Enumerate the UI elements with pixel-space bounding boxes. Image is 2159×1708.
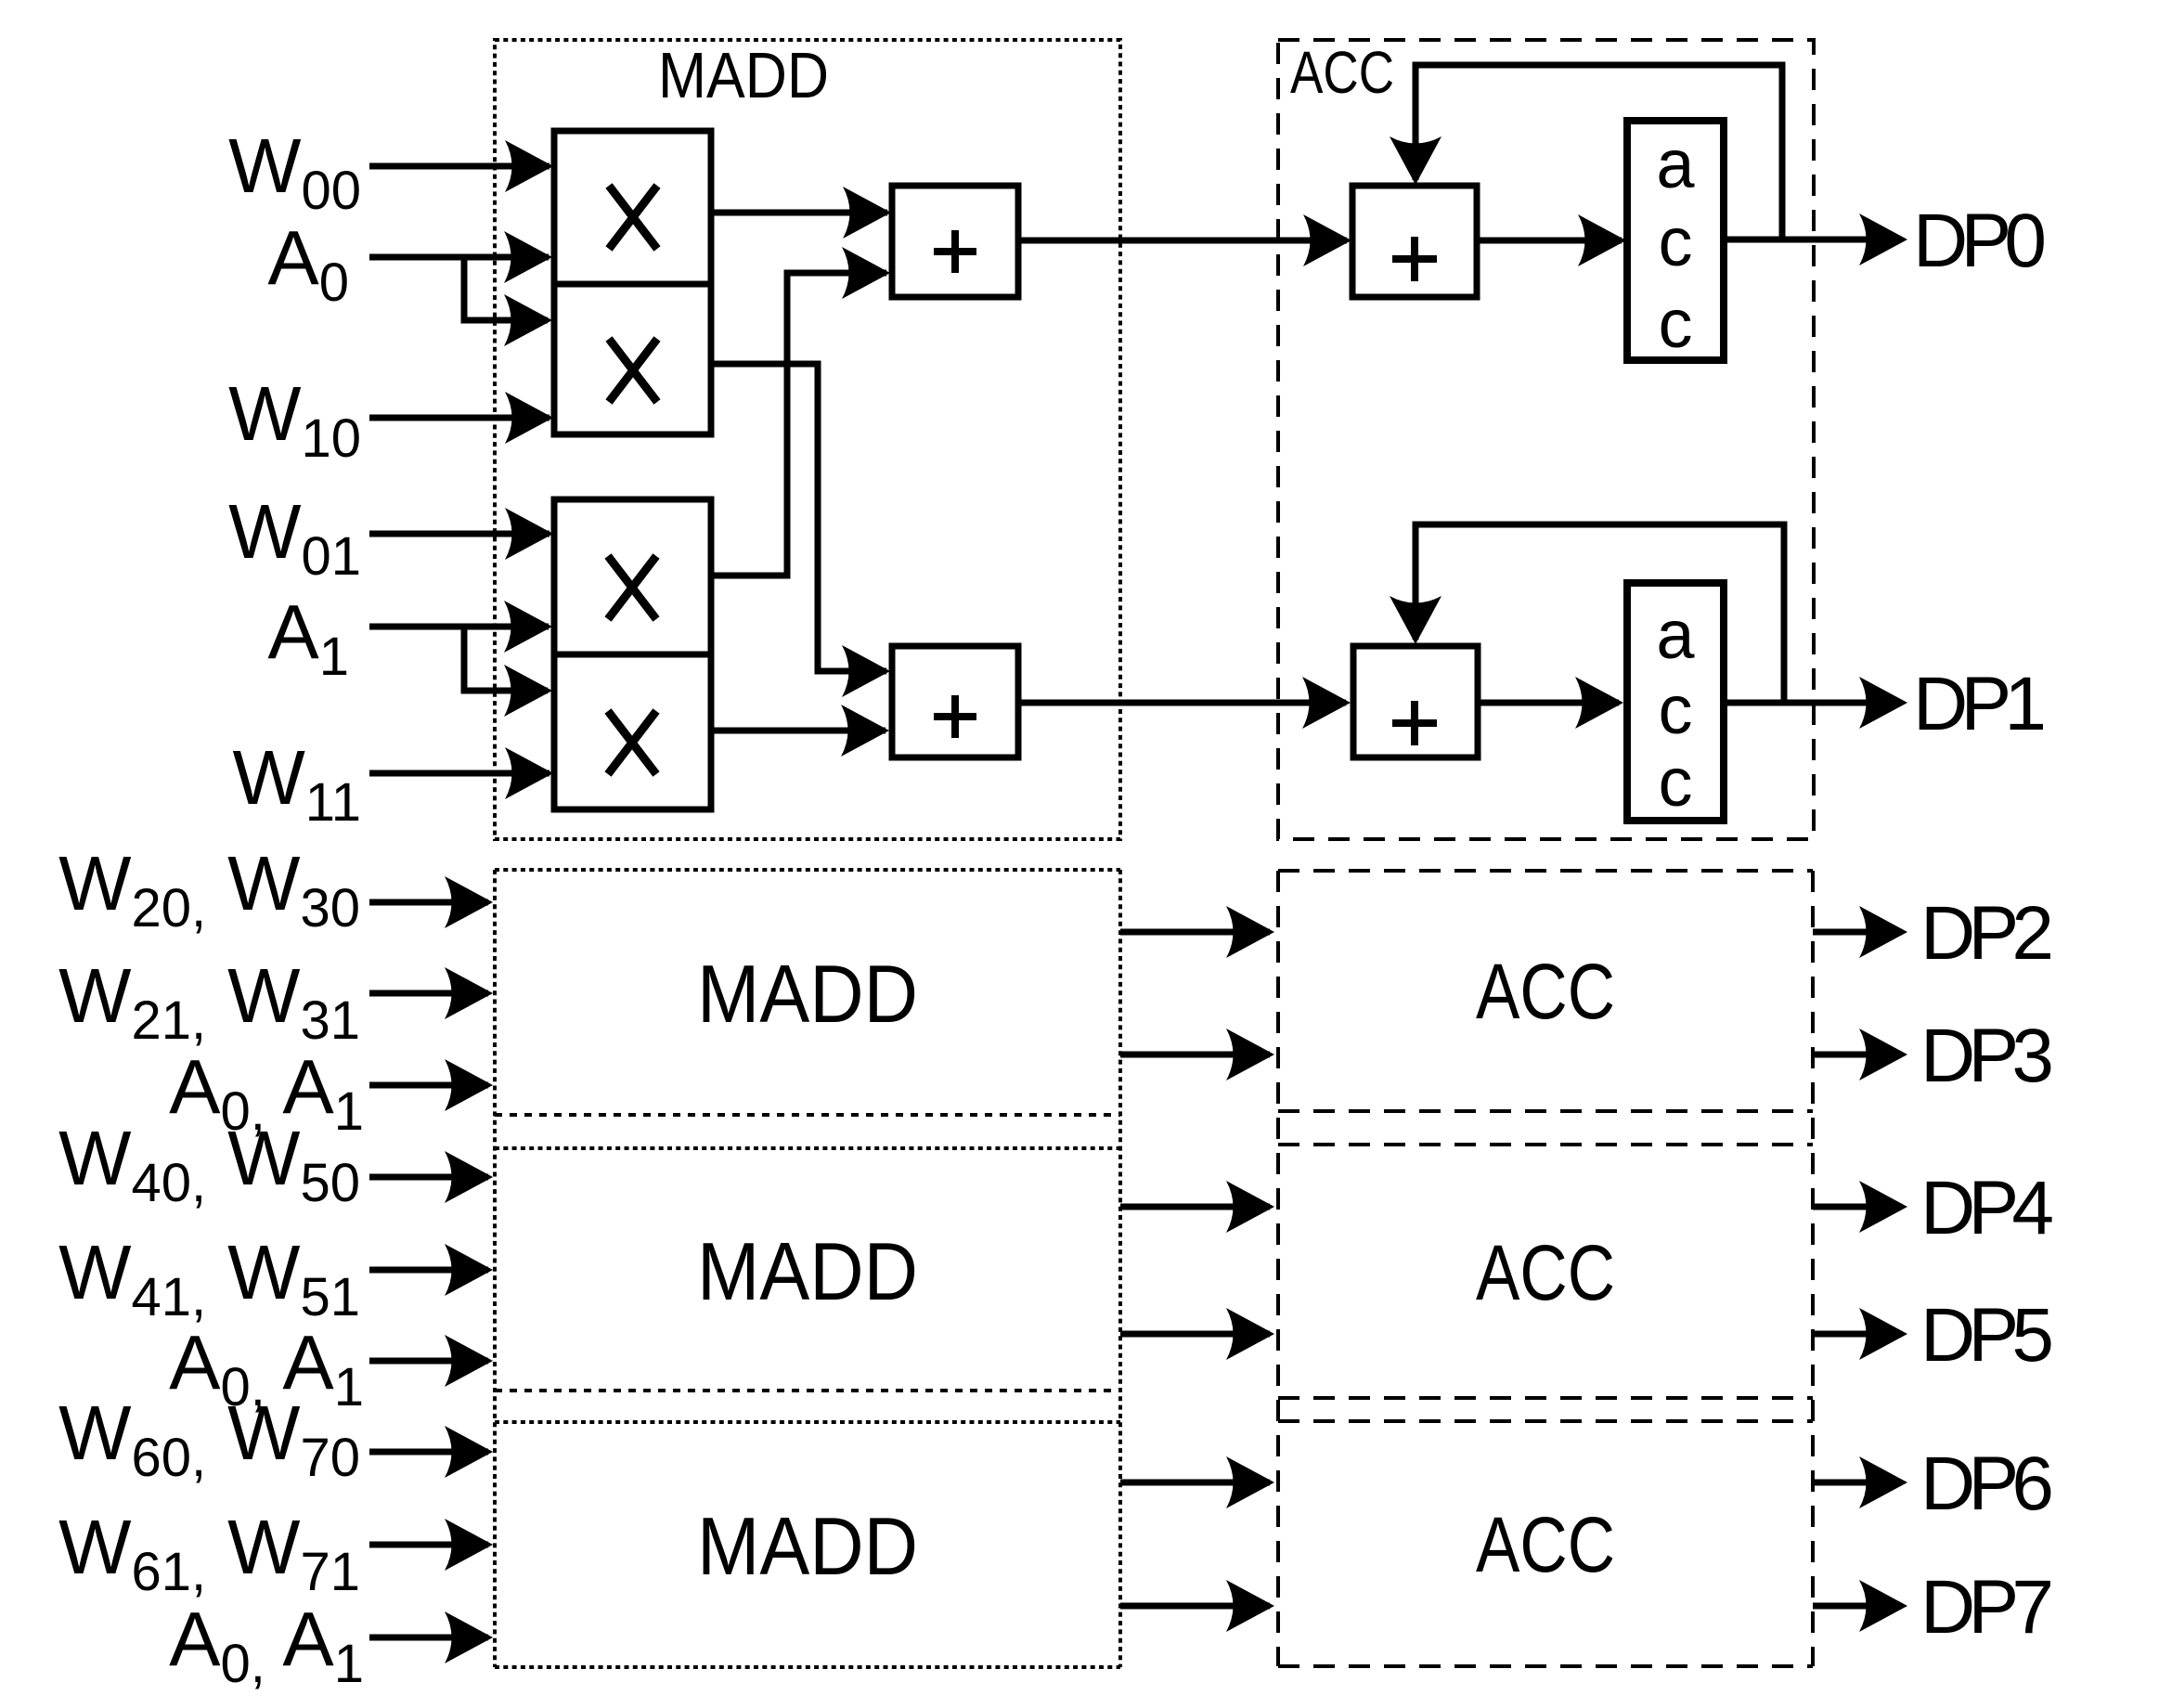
X glyph multiplier 1 bbox=[609, 186, 657, 249]
plus glyph ACC adder2 bbox=[1392, 701, 1437, 745]
svg-text:ACC: ACC bbox=[1476, 1501, 1615, 1588]
arrow row3 into ACC lower bbox=[1226, 1308, 1274, 1360]
ACC row2 dashed bottom edge bbox=[1278, 1109, 1813, 1113]
ACC rows dashed right edge bbox=[1811, 871, 1815, 1666]
plus glyph MADD adder2 bbox=[934, 695, 976, 738]
svg-text:DP0: DP0 bbox=[1913, 199, 2047, 283]
arrow into X2 from A0 branch bbox=[504, 294, 552, 346]
wire X4 output to adder2 bbox=[709, 728, 886, 734]
wire row3 MADD to ACC upper bbox=[1120, 1204, 1270, 1210]
wire X3 output up to adder1 bbox=[709, 273, 886, 576]
wire acc1 feedback top bbox=[1416, 65, 1782, 242]
wire row3 input W40W50 bbox=[369, 1174, 488, 1181]
svg-text:DP5: DP5 bbox=[1920, 1293, 2054, 1378]
wire row3 ACC out DP4 bbox=[1813, 1204, 1902, 1210]
arrow into X1 from W00 bbox=[505, 140, 553, 192]
ACC row2 dashed top edge bbox=[1278, 869, 1813, 873]
wire A1 input bbox=[369, 624, 549, 630]
arrow row3 into MADD W40W50 bbox=[445, 1151, 493, 1203]
arrow into ACC adder1 bbox=[1303, 214, 1351, 266]
arrow into X2 from W10 bbox=[505, 392, 553, 444]
wire row3 input A0A1 bbox=[369, 1358, 488, 1365]
arrow row2 into ACC lower bbox=[1226, 1029, 1274, 1080]
svg-text:ACC: ACC bbox=[1476, 948, 1615, 1035]
wire row4 input A0A1 bbox=[369, 1635, 488, 1641]
wire X2 output down to adder2 bbox=[711, 364, 886, 671]
X glyph multiplier 4 bbox=[608, 711, 656, 774]
svg-text:DP6: DP6 bbox=[1920, 1442, 2054, 1526]
arrow row3 into MADD W41W51 bbox=[445, 1244, 493, 1296]
arrow feedback down into ACC adder2 bbox=[1390, 596, 1441, 644]
wire row4 input W61W71 bbox=[369, 1542, 488, 1548]
svg-text:DP3: DP3 bbox=[1920, 1014, 2054, 1098]
arrow to DP6 bbox=[1859, 1456, 1907, 1508]
adder box MADD2 bbox=[892, 646, 1018, 757]
arrow row2 into MADD A0A1 bbox=[445, 1059, 493, 1111]
svg-text:c: c bbox=[1659, 285, 1693, 362]
ACC row1 dashed box bbox=[1278, 40, 1814, 839]
svg-text:a: a bbox=[1656, 596, 1695, 673]
acc register 1 bbox=[1627, 121, 1724, 360]
svg-text:c: c bbox=[1659, 744, 1693, 821]
arrow into MADD adder1 input2 bbox=[842, 247, 890, 299]
arrow into X1 from A0 bbox=[504, 231, 552, 283]
ACC rows dashed left edge bbox=[1276, 871, 1280, 1666]
wire ACC adder1 out to acc1 register bbox=[1477, 238, 1622, 244]
arrow row3 into ACC upper bbox=[1226, 1181, 1274, 1233]
wire W10 input bbox=[369, 415, 549, 421]
svg-text:ACC: ACC bbox=[1290, 39, 1394, 106]
X glyph multiplier 2 bbox=[609, 339, 657, 402]
wire W00 input bbox=[369, 163, 549, 170]
arrow to DP4 bbox=[1859, 1181, 1907, 1233]
acc register 2 bbox=[1627, 583, 1724, 821]
svg-text:DP7: DP7 bbox=[1920, 1565, 2054, 1650]
wire row4 MADD to ACC upper bbox=[1120, 1480, 1270, 1486]
MADD rows dotted left edge bbox=[493, 870, 497, 1667]
ACC row3 dashed bottom edge bbox=[1278, 1396, 1813, 1400]
arrow feedback down into ACC adder1 bbox=[1390, 136, 1441, 185]
wire row2 ACC out DP3 bbox=[1813, 1052, 1902, 1058]
arrow row2 into MADD W20W30 bbox=[445, 876, 493, 928]
wire row4 ACC out DP7 bbox=[1813, 1603, 1902, 1610]
arrow row4 into MADD W61W71 bbox=[445, 1519, 493, 1571]
arrow into X3 from A1 bbox=[504, 601, 552, 653]
svg-text:DP4: DP4 bbox=[1920, 1166, 2054, 1250]
wire ACC adder2 out to acc2 register bbox=[1478, 700, 1619, 706]
arrow into ACC adder2 bbox=[1302, 677, 1351, 729]
wire acc2 register out to DP1 bbox=[1725, 700, 1902, 706]
multiplier X3 X4 block bbox=[554, 499, 711, 809]
svg-text:DP2: DP2 bbox=[1920, 891, 2054, 976]
arrow row2 into ACC upper bbox=[1226, 906, 1274, 958]
MADD rows dotted right edge bbox=[1118, 870, 1122, 1667]
MADD row1 dotted box bbox=[495, 40, 1120, 839]
wire X1 output to adder1 bbox=[711, 210, 887, 216]
svg-text:c: c bbox=[1659, 203, 1693, 280]
ACC row4 dashed bottom edge bbox=[1278, 1664, 1813, 1668]
svg-text:ACC: ACC bbox=[1476, 1229, 1615, 1316]
arrow row4 into MADD A0A1 bbox=[445, 1611, 493, 1663]
arrow into acc2 register bbox=[1575, 677, 1623, 729]
wire row4 input W60W70 bbox=[369, 1449, 488, 1456]
wire row4 MADD to ACC lower bbox=[1120, 1603, 1270, 1610]
arrow into X3 from W01 bbox=[505, 508, 553, 560]
plus glyph MADD adder1 bbox=[934, 230, 976, 273]
svg-text:c: c bbox=[1659, 671, 1693, 748]
wire row2 input A0A1 bbox=[369, 1082, 488, 1089]
wire MADD adder2 out to ACC adder2 bbox=[1019, 700, 1346, 706]
arrow row4 into MADD W60W70 bbox=[445, 1426, 493, 1478]
svg-text:a: a bbox=[1656, 125, 1695, 202]
wire A0 input bbox=[369, 254, 549, 261]
svg-text:MADD: MADD bbox=[697, 1225, 918, 1317]
ACC row3 dashed top edge bbox=[1278, 1143, 1813, 1146]
wire row2 input W20W30 bbox=[369, 899, 488, 906]
arrow row2 into MADD W21W31 bbox=[445, 967, 493, 1019]
wire row4 ACC out DP6 bbox=[1813, 1480, 1902, 1486]
arrow to DP2 bbox=[1859, 906, 1907, 958]
multiplier X1 X2 block bbox=[554, 131, 711, 434]
svg-text:MADD: MADD bbox=[697, 948, 918, 1040]
wire A1 branch vertical bbox=[464, 628, 548, 691]
MADD row4 dotted top edge bbox=[495, 1420, 1120, 1424]
arrow row3 into MADD A0A1 bbox=[445, 1335, 493, 1387]
arrow to DP3 bbox=[1859, 1029, 1907, 1080]
wire row3 MADD to ACC lower bbox=[1120, 1331, 1270, 1338]
svg-text:DP1: DP1 bbox=[1913, 662, 2047, 746]
wire acc2 feedback top bbox=[1416, 524, 1784, 705]
wire W11 input bbox=[369, 770, 549, 777]
ACC row4 dashed top edge bbox=[1278, 1419, 1813, 1423]
wire W01 input bbox=[369, 531, 549, 537]
MADD row4 dotted bottom edge bbox=[495, 1665, 1120, 1669]
adder box ACC2 bbox=[1353, 646, 1478, 757]
arrow row4 into ACC upper bbox=[1226, 1456, 1274, 1508]
svg-text:MADD: MADD bbox=[658, 39, 829, 111]
plus glyph ACC adder1 bbox=[1392, 237, 1437, 281]
wire row2 MADD to ACC upper bbox=[1120, 929, 1270, 936]
MADD row2 dashed bottom edge bbox=[495, 1113, 1120, 1117]
arrow to DP7 bbox=[1859, 1580, 1907, 1632]
MADD row3 dashed bottom edge bbox=[495, 1389, 1120, 1392]
wire row3 ACC out DP5 bbox=[1813, 1331, 1902, 1338]
arrow into MADD adder2 input2 bbox=[841, 705, 889, 757]
arrow to DP5 bbox=[1859, 1308, 1907, 1360]
arrow into MADD adder2 input1 bbox=[842, 645, 890, 697]
MADD row3 dotted top edge bbox=[495, 1146, 1120, 1150]
arrow to DP0 bbox=[1859, 213, 1907, 265]
wire row2 ACC out DP2 bbox=[1813, 929, 1902, 936]
svg-text:MADD: MADD bbox=[697, 1500, 918, 1592]
arrow row4 into ACC lower bbox=[1226, 1580, 1274, 1632]
arrow to DP1 bbox=[1859, 677, 1907, 729]
MADD row2 dotted top edge bbox=[495, 868, 1120, 872]
wire row2 input W21W31 bbox=[369, 990, 488, 997]
wire row2 MADD to ACC lower bbox=[1120, 1052, 1270, 1058]
arrow into MADD adder1 input1 bbox=[843, 187, 891, 239]
wire row3 input W41W51 bbox=[369, 1267, 488, 1274]
wire acc1 register out to DP0 bbox=[1724, 237, 1902, 243]
adder box MADD1 bbox=[892, 186, 1018, 297]
adder box ACC1 bbox=[1352, 186, 1477, 297]
arrow into X4 from A1 branch bbox=[504, 665, 552, 717]
wire A0 branch vertical bbox=[464, 259, 548, 320]
X glyph multiplier 3 bbox=[608, 556, 656, 619]
arrow into acc1 register bbox=[1578, 214, 1626, 266]
wire MADD adder1 out to ACC adder1 bbox=[1018, 238, 1347, 244]
arrow into X4 from W11 bbox=[505, 747, 553, 799]
